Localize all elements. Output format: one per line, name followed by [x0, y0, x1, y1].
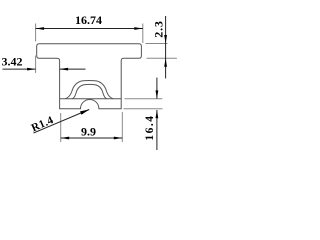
extension line left (x=35.6): [35, 24, 37, 42]
dome inner arc: [72, 84, 107, 98]
extension line right (x=142.8): [142, 24, 144, 44]
dimension 16.74 line: [36, 28, 143, 30]
profile outline: [37, 44, 142, 109]
leader R1.4: [34, 110, 90, 134]
extension line bottom right (y=108.8): [124, 108, 163, 110]
extension line bottom right vert (x=122.3): [121, 112, 123, 142]
extension line bottom left (x=60.7): [60, 113, 62, 142]
dome outer arc: [65, 81, 113, 99]
floor line: [60, 98, 122, 100]
svg-text:16.74: 16.74: [75, 13, 102, 27]
dimension 2.3 line: [165, 16, 167, 78]
extension line flange top right (y=43.5): [146, 43, 168, 45]
svg-text:9.9: 9.9: [81, 124, 96, 138]
svg-text:R1.4: R1.4: [30, 114, 56, 134]
dimension 16.4 line upper: [156, 78, 158, 99]
extension line flange bottom right (y=58.2): [147, 57, 177, 59]
svg-text:16.4: 16.4: [144, 114, 156, 140]
dimension 3.42 line: [3, 68, 36, 70]
svg-text:3.42: 3.42: [2, 55, 23, 69]
extension line floor right (y=98.8): [125, 98, 163, 100]
dimension 9.9 line: [61, 137, 123, 139]
svg-text:2.3: 2.3: [152, 20, 166, 37]
dimension 16.4 line lower: [156, 110, 158, 150]
